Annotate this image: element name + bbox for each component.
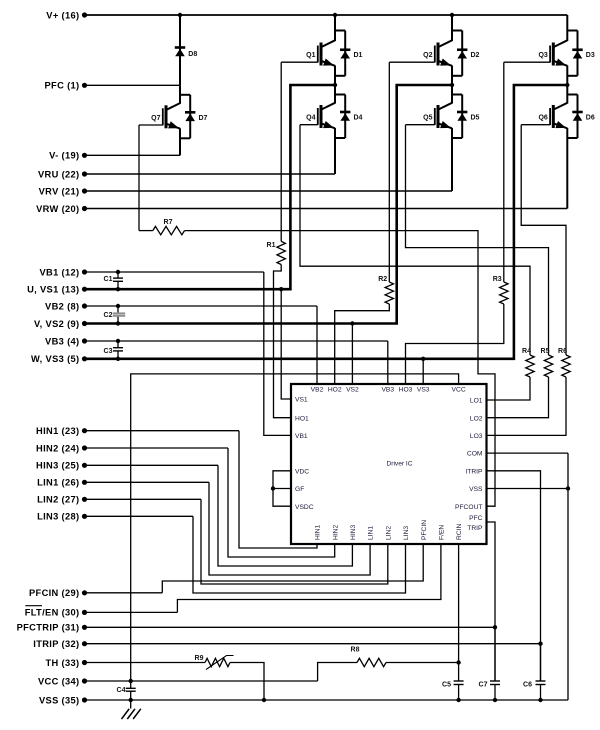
svg-text:VB3: VB3 <box>381 386 394 393</box>
svg-text:C2: C2 <box>104 312 113 319</box>
svg-text:HIN1 (23): HIN1 (23) <box>36 426 79 436</box>
svg-text:TH (33): TH (33) <box>46 658 80 668</box>
svg-text:HO1: HO1 <box>295 415 309 422</box>
svg-text:TRIP: TRIP <box>467 525 483 532</box>
svg-text:D7: D7 <box>199 115 208 122</box>
svg-text:R1: R1 <box>267 242 276 249</box>
svg-text:HO2: HO2 <box>328 386 342 393</box>
svg-text:VRU (22): VRU (22) <box>38 169 80 179</box>
svg-text:V- (19): V- (19) <box>49 151 79 161</box>
svg-text:ITRIP (32): ITRIP (32) <box>33 639 79 649</box>
svg-text:D5: D5 <box>471 115 480 122</box>
svg-text:R4: R4 <box>522 348 531 355</box>
svg-text:R2: R2 <box>378 276 387 283</box>
svg-text:LIN3 (28): LIN3 (28) <box>37 512 79 522</box>
svg-text:HIN3: HIN3 <box>350 524 357 540</box>
svg-text:W, VS3 (5): W, VS3 (5) <box>31 354 79 364</box>
svg-text:VS2: VS2 <box>346 386 359 393</box>
svg-text:C6: C6 <box>523 682 532 689</box>
svg-text:Q7: Q7 <box>151 115 160 122</box>
svg-text:C7: C7 <box>479 682 488 689</box>
svg-text:VS1: VS1 <box>295 397 308 404</box>
svg-text:COM: COM <box>467 451 483 458</box>
svg-text:U, VS1 (13): U, VS1 (13) <box>27 285 79 295</box>
svg-text:Q1: Q1 <box>306 52 315 59</box>
svg-text:PFCIN: PFCIN <box>421 520 428 540</box>
svg-text:VS3: VS3 <box>417 386 430 393</box>
svg-text:VSS: VSS <box>469 486 483 493</box>
svg-text:Q6: Q6 <box>538 115 547 122</box>
svg-text:HIN1: HIN1 <box>315 524 322 540</box>
svg-text:RCIN: RCIN <box>456 523 463 540</box>
svg-text:VRV (21): VRV (21) <box>39 186 80 196</box>
svg-text:LO3: LO3 <box>470 433 483 440</box>
svg-text:VB1: VB1 <box>295 433 308 440</box>
svg-text:VB2: VB2 <box>311 386 324 393</box>
svg-text:VB2 (8): VB2 (8) <box>45 301 79 311</box>
svg-text:R9: R9 <box>195 655 204 662</box>
svg-text:PFCTRIP (31): PFCTRIP (31) <box>17 623 80 633</box>
svg-text:Q5: Q5 <box>423 115 432 122</box>
svg-text:HO3: HO3 <box>399 386 413 393</box>
svg-text:VCC (34): VCC (34) <box>38 676 80 686</box>
svg-text:VDC: VDC <box>295 468 309 475</box>
svg-text:VB1 (12): VB1 (12) <box>39 267 79 277</box>
svg-text:Q2: Q2 <box>423 52 432 59</box>
svg-text:PFCOUT: PFCOUT <box>455 504 483 511</box>
svg-text:R7: R7 <box>164 219 173 226</box>
svg-text:D2: D2 <box>471 52 480 59</box>
svg-text:PFC: PFC <box>469 515 483 522</box>
svg-text:D1: D1 <box>354 52 363 59</box>
svg-text:D6: D6 <box>586 115 595 122</box>
svg-text:HIN2 (24): HIN2 (24) <box>36 443 79 453</box>
svg-text:C3: C3 <box>104 348 113 355</box>
svg-text:VSDC: VSDC <box>295 504 314 511</box>
svg-text:LIN1: LIN1 <box>368 526 375 540</box>
svg-text:D8: D8 <box>188 51 197 58</box>
svg-text:PFC (1): PFC (1) <box>45 81 80 91</box>
svg-text:HIN2: HIN2 <box>332 524 339 540</box>
svg-text:Q3: Q3 <box>538 52 547 59</box>
svg-text:Q4: Q4 <box>306 115 315 122</box>
svg-text:LIN2: LIN2 <box>385 526 392 540</box>
svg-text:ITRIP: ITRIP <box>465 468 483 475</box>
svg-text:VRW (20): VRW (20) <box>36 204 79 214</box>
svg-text:LO1: LO1 <box>470 398 483 405</box>
svg-text:HIN3 (25): HIN3 (25) <box>36 461 79 471</box>
svg-text:V, VS2 (9): V, VS2 (9) <box>34 319 80 329</box>
svg-text:R3: R3 <box>493 276 502 283</box>
svg-text:VB3 (4): VB3 (4) <box>45 336 79 346</box>
svg-text:V+ (16): V+ (16) <box>46 10 79 20</box>
svg-text:PFCIN (29): PFCIN (29) <box>29 588 80 598</box>
svg-text:LIN2 (27): LIN2 (27) <box>37 495 79 505</box>
svg-text:R5: R5 <box>541 348 550 355</box>
svg-text:Driver IC: Driver IC <box>386 461 412 468</box>
svg-text:F/EN: F/EN <box>439 525 446 540</box>
svg-text:LIN1 (26): LIN1 (26) <box>37 478 79 488</box>
svg-text:D4: D4 <box>354 115 363 122</box>
svg-text:D3: D3 <box>586 52 595 59</box>
svg-text:C1: C1 <box>104 276 113 283</box>
svg-text:FLT/EN (30): FLT/EN (30) <box>25 608 80 618</box>
svg-text:LIN3: LIN3 <box>403 526 410 540</box>
svg-text:C5: C5 <box>442 682 451 689</box>
svg-text:C4: C4 <box>117 687 126 694</box>
svg-text:LO2: LO2 <box>470 415 483 422</box>
svg-text:GF: GF <box>295 486 304 493</box>
svg-text:VCC: VCC <box>452 386 466 393</box>
svg-text:R6: R6 <box>558 348 567 355</box>
svg-text:R8: R8 <box>351 647 360 654</box>
svg-text:VSS (35): VSS (35) <box>39 695 80 705</box>
